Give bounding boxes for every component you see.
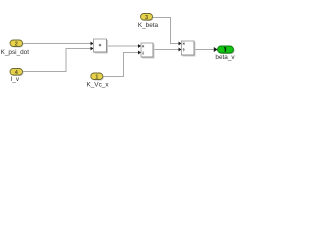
wire Product1 out to Divide1 in1 — [107, 44, 142, 48]
inport 1 K_Vc_x — [91, 73, 104, 81]
svg-text:K_beta: K_beta — [138, 22, 159, 29]
product block P1 — [94, 39, 108, 53]
inport 3 K_beta — [141, 14, 154, 22]
svg-text:K_psi_dot: K_psi_dot — [1, 49, 30, 56]
svg-text:3: 3 — [145, 15, 148, 21]
outport 1 beta_v — [218, 46, 235, 54]
wire Divide2 out to outport beta_v — [195, 47, 218, 52]
svg-text:K_Vc_x: K_Vc_x — [86, 82, 109, 89]
svg-text:2: 2 — [15, 42, 18, 48]
divide block P3 — [182, 41, 196, 56]
wire K_psi_dot to Product1 in1 — [23, 42, 94, 46]
canvas background — [0, 0, 240, 95]
inport 2 K_psi_dot — [10, 40, 24, 48]
wire K_Vc_x to Divide1 in2 — [103, 51, 141, 77]
svg-text:1: 1 — [95, 75, 98, 81]
wire K_beta to Divide2 in1 — [153, 18, 182, 46]
divide block P2 — [141, 43, 154, 58]
svg-text:I_v: I_v — [11, 76, 20, 83]
wire Divide1 out to Divide2 in2 — [154, 48, 182, 52]
svg-text:beta_v: beta_v — [215, 54, 235, 61]
wire I_v to Product1 in2 — [23, 47, 94, 72]
inport 4 I_v — [10, 69, 24, 77]
